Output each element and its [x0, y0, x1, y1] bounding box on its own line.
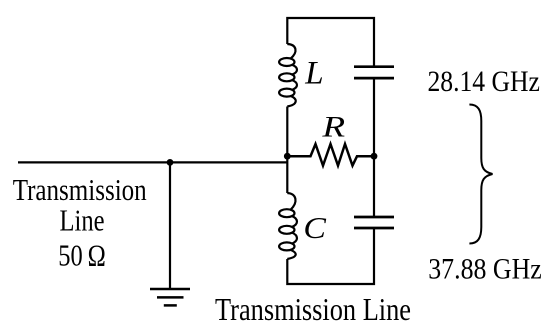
wire: right rail between capacitors	[373, 78, 375, 217]
node: junction on transmission line	[167, 159, 174, 166]
wire: stub loop bottom	[287, 228, 374, 284]
node: resistor right	[371, 153, 378, 160]
capacitor bottom (right branch)	[354, 217, 394, 228]
svg-text:R: R	[321, 111, 345, 143]
svg-text:Transmission: Transmission	[13, 173, 147, 207]
svg-text:50 Ω: 50 Ω	[58, 239, 106, 273]
resistor R	[287, 144, 374, 166]
inductor L	[279, 44, 297, 107]
svg-text:Line: Line	[60, 203, 105, 237]
brace	[469, 105, 492, 244]
svg-text:C: C	[303, 211, 326, 245]
wire: main transmission line horizontal	[18, 161, 287, 163]
wire: stub loop top	[287, 18, 374, 67]
capacitor C (drawn as coil)	[279, 193, 297, 259]
capacitor top (right branch)	[354, 67, 394, 78]
node: resistor left	[284, 153, 291, 160]
svg-text:L: L	[304, 55, 323, 91]
ground	[150, 289, 190, 305]
svg-text:Transmission Line: Transmission Line	[215, 292, 411, 327]
svg-text:28.14 GHz: 28.14 GHz	[427, 65, 540, 98]
wire: junction vertical to ground	[169, 162, 171, 288]
svg-text:37.88 GHz: 37.88 GHz	[428, 252, 542, 285]
wire: left rail between L and C	[286, 107, 288, 194]
